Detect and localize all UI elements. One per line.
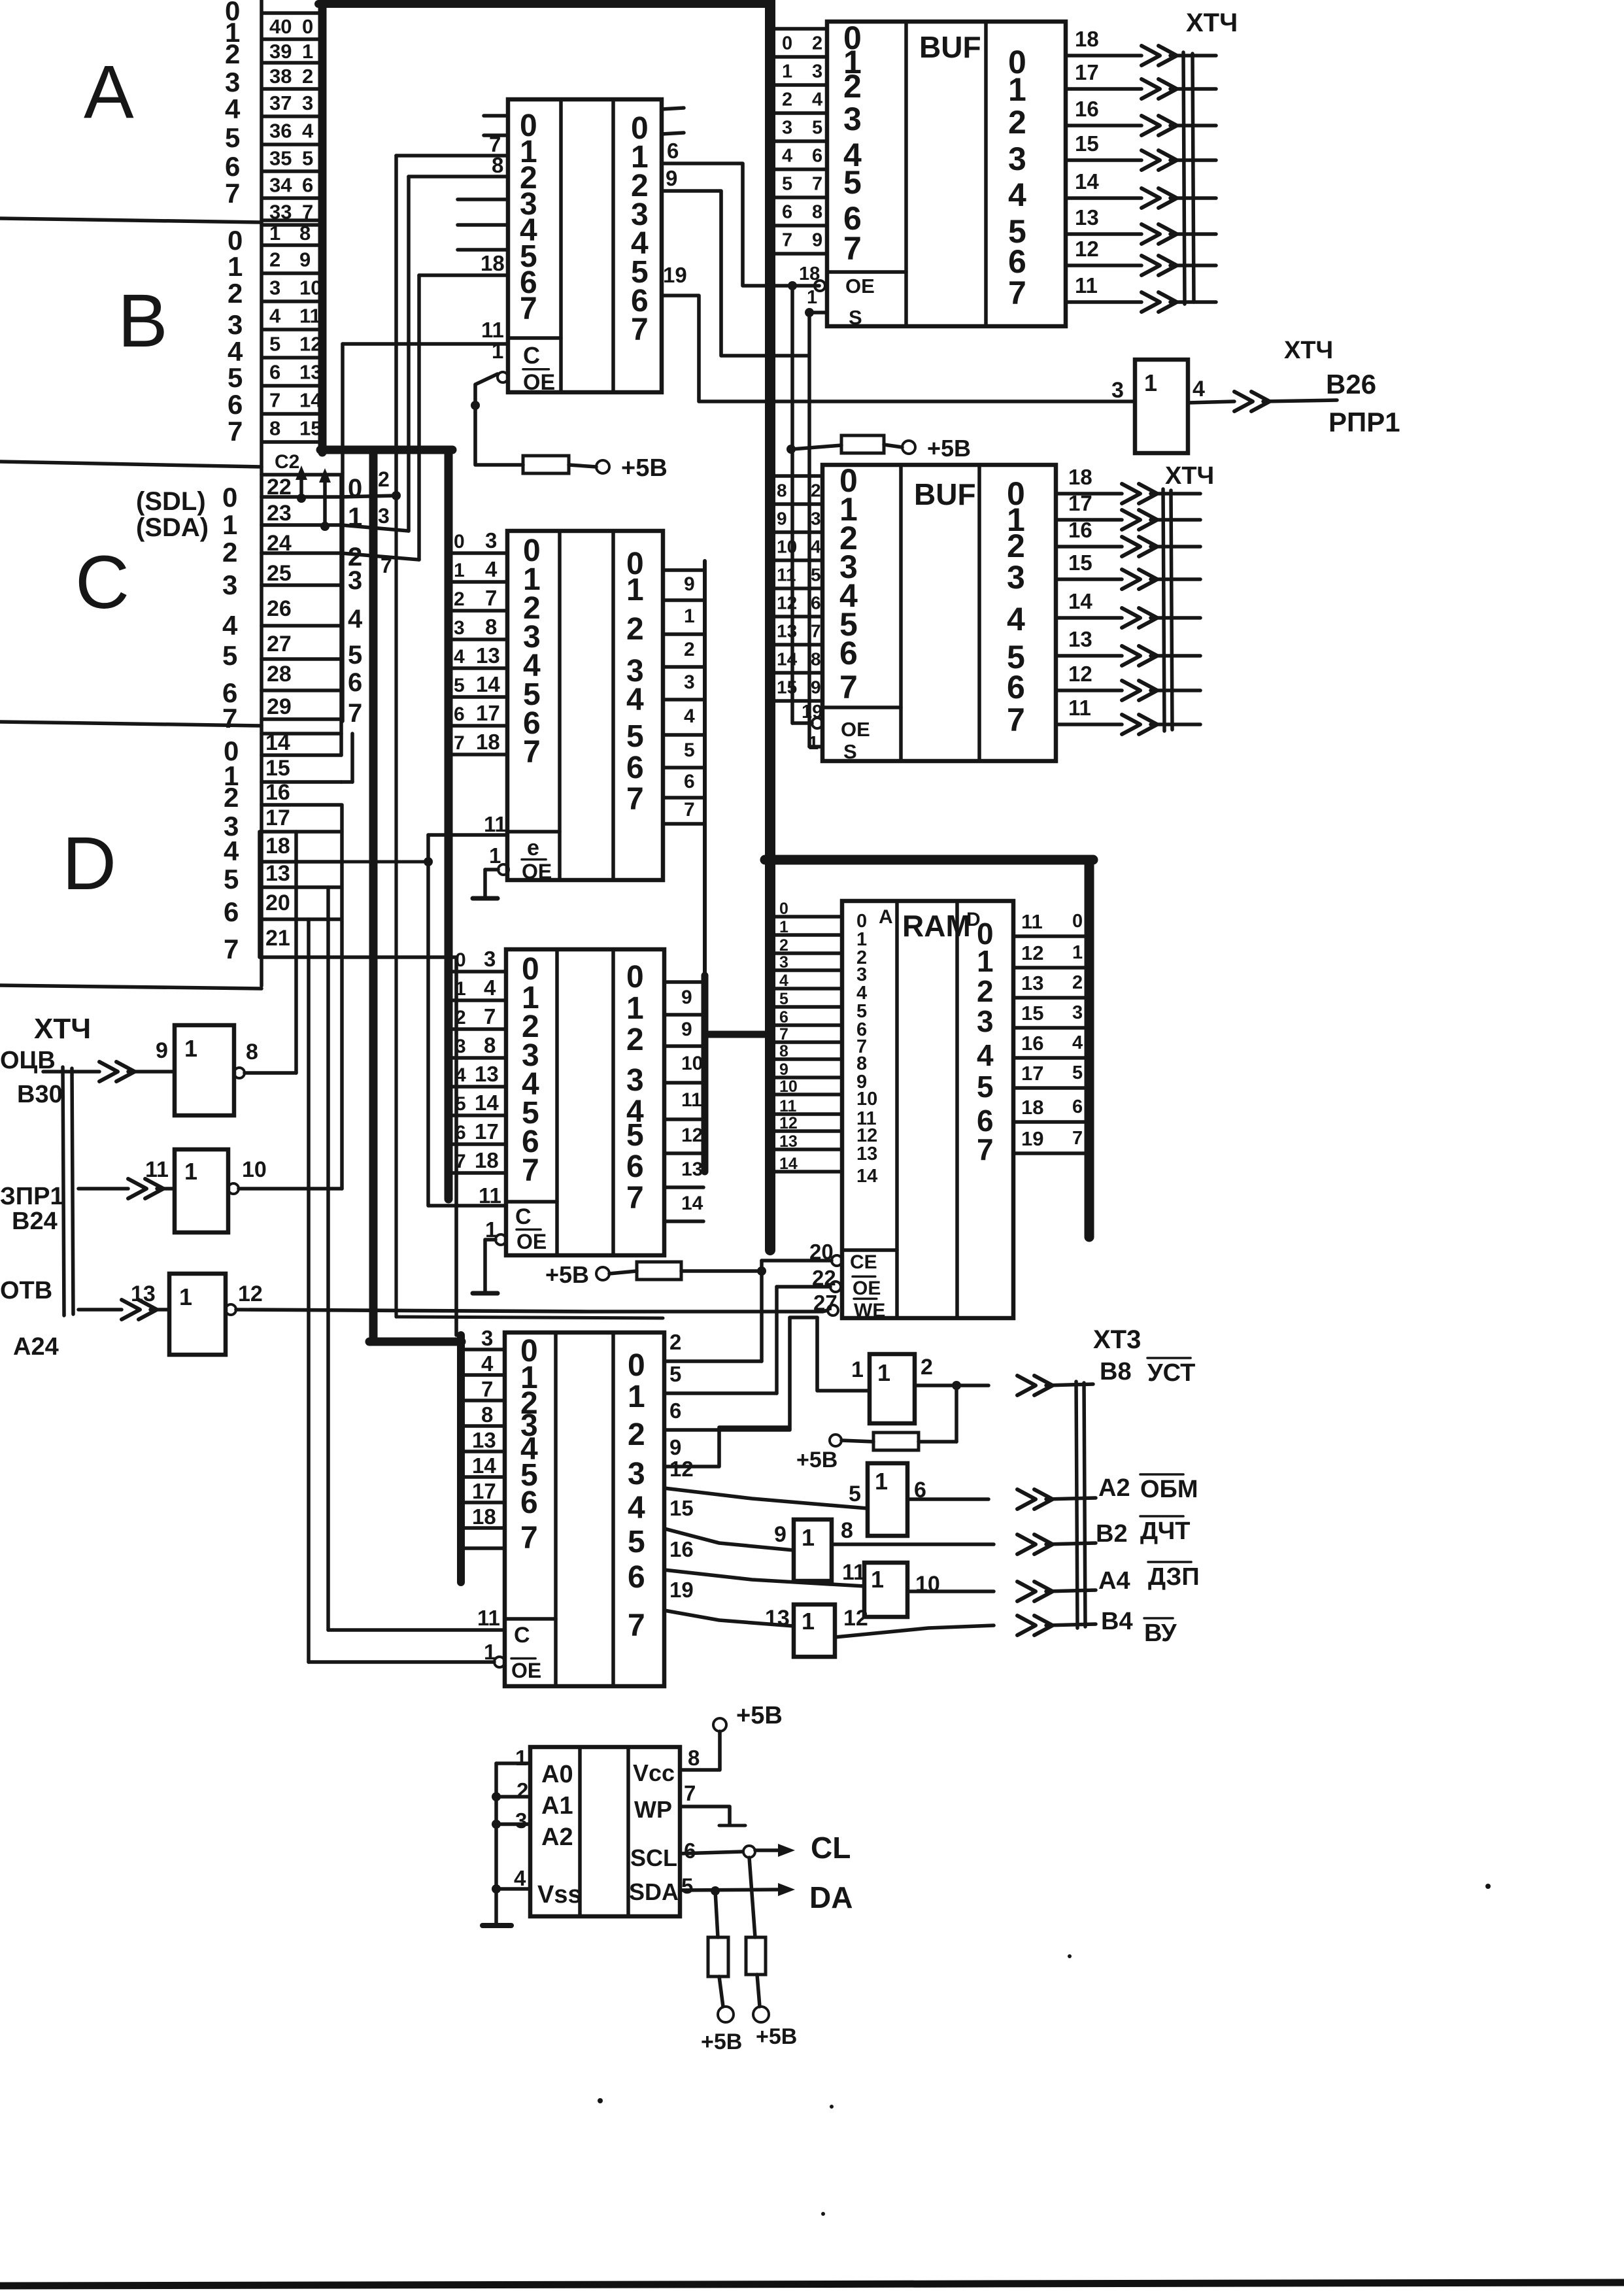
wire DZP output xyxy=(907,1589,994,1593)
svg-text:3: 3 xyxy=(225,67,240,97)
svg-text:10: 10 xyxy=(242,1157,267,1182)
svg-text:17: 17 xyxy=(1068,491,1092,515)
svg-text:RAM: RAM xyxy=(902,909,971,943)
svg-text:5: 5 xyxy=(348,641,362,670)
resistor R1 +5V xyxy=(523,456,569,473)
svg-text:9: 9 xyxy=(669,1435,681,1459)
svg-text:C: C xyxy=(75,541,129,624)
svg-text:20: 20 xyxy=(265,891,290,915)
svg-text:C: C xyxy=(515,1204,532,1229)
terminal R6 xyxy=(753,2007,769,2022)
svg-text:6: 6 xyxy=(1072,1096,1083,1117)
svg-text:ДЗП: ДЗП xyxy=(1148,1563,1200,1591)
svg-text:14: 14 xyxy=(476,672,500,696)
wire OE chain down xyxy=(790,286,794,723)
svg-text:3: 3 xyxy=(812,61,822,82)
svg-text:2: 2 xyxy=(977,974,994,1008)
wire U4 out19 to VU xyxy=(664,1610,794,1626)
svg-text:1: 1 xyxy=(454,560,465,581)
svg-text:7: 7 xyxy=(228,416,243,447)
svg-text:4: 4 xyxy=(269,305,281,328)
svg-text:3: 3 xyxy=(782,118,792,139)
wire OTV input xyxy=(78,1308,122,1312)
wire U4 out5 to OE xyxy=(664,1391,777,1395)
resistor R6 CL pullup xyxy=(749,1858,755,1937)
svg-text:5: 5 xyxy=(269,333,280,356)
svg-text:B: B xyxy=(118,279,168,363)
svg-text:12: 12 xyxy=(777,593,797,613)
svg-text:4: 4 xyxy=(782,146,792,167)
svg-text:7: 7 xyxy=(269,389,280,412)
svg-text:13: 13 xyxy=(681,1159,703,1180)
svg-text:4: 4 xyxy=(977,1038,994,1072)
wire D21 to U4 bus xyxy=(341,955,456,959)
svg-text:Vss: Vss xyxy=(537,1881,582,1909)
svg-text:5: 5 xyxy=(454,675,465,696)
svg-text:1: 1 xyxy=(871,1566,884,1593)
svg-text:16: 16 xyxy=(265,780,290,805)
node SCL arrow xyxy=(297,494,306,503)
top thick bus bar xyxy=(318,0,771,8)
wire SCL xyxy=(680,1852,743,1854)
section divider A/B xyxy=(0,218,262,222)
svg-text:7: 7 xyxy=(631,313,649,347)
latch U1 inner lines xyxy=(559,99,563,392)
svg-text:14: 14 xyxy=(472,1453,496,1478)
svg-text:17: 17 xyxy=(1075,60,1099,84)
wire U4 out9 pullup xyxy=(664,1427,788,1467)
svg-text:16: 16 xyxy=(669,1537,694,1561)
svg-text:3: 3 xyxy=(515,1808,527,1833)
svg-text:13: 13 xyxy=(779,1132,798,1151)
svg-text:14: 14 xyxy=(265,730,290,755)
wire DCT output xyxy=(832,1542,994,1546)
svg-text:25: 25 xyxy=(267,561,292,586)
svg-text:0: 0 xyxy=(782,33,792,54)
svg-text:8: 8 xyxy=(688,1746,700,1770)
svg-text:1: 1 xyxy=(489,843,501,868)
svg-text:7: 7 xyxy=(381,554,392,577)
svg-text:5: 5 xyxy=(681,1874,693,1898)
wire Vss xyxy=(496,1887,530,1891)
svg-text:6: 6 xyxy=(626,1149,644,1184)
wire R3 to CE net xyxy=(681,1269,762,1273)
wire R4 to UST net xyxy=(919,1440,956,1444)
svg-text:В30: В30 xyxy=(17,1081,63,1108)
wire U1 out9 to BUF S xyxy=(662,191,808,356)
svg-text:1: 1 xyxy=(802,1608,815,1635)
svg-text:ДЧТ: ДЧТ xyxy=(1140,1518,1190,1545)
svg-text:8: 8 xyxy=(485,615,497,639)
svg-text:2: 2 xyxy=(669,1330,681,1354)
svg-text:CL: CL xyxy=(811,1831,851,1865)
svg-text:6: 6 xyxy=(782,202,792,223)
bus U3 outputs vertical thick xyxy=(702,976,709,1172)
buffer BUF2 output wires to XT4 xyxy=(1056,492,1122,496)
svg-text:+5В: +5В xyxy=(701,2029,742,2054)
svg-text:5: 5 xyxy=(684,739,695,761)
svg-text:3: 3 xyxy=(1072,1002,1083,1023)
ram U5 address ladder xyxy=(771,915,842,919)
svg-text:5: 5 xyxy=(626,1118,644,1153)
svg-text:13: 13 xyxy=(265,861,290,886)
svg-text:0: 0 xyxy=(1072,911,1083,932)
buffer DD2.2 body xyxy=(868,1463,907,1536)
svg-text:В26: В26 xyxy=(1326,369,1376,399)
svg-text:A1: A1 xyxy=(541,1792,573,1820)
svg-text:4: 4 xyxy=(1007,601,1025,637)
svg-text:7: 7 xyxy=(684,1781,696,1805)
svg-text:5: 5 xyxy=(977,1070,994,1104)
+5V terminal R4 xyxy=(830,1434,841,1446)
svg-text:3: 3 xyxy=(626,1063,644,1098)
svg-text:14: 14 xyxy=(1075,169,1099,194)
svg-text:3: 3 xyxy=(485,528,497,552)
arrow CL xyxy=(755,1848,785,1852)
latch U2 inner lines xyxy=(558,531,562,880)
svg-text:6: 6 xyxy=(779,1008,788,1027)
svg-text:18: 18 xyxy=(476,730,500,754)
svg-text:4: 4 xyxy=(514,1866,526,1890)
svg-text:1: 1 xyxy=(184,1158,197,1185)
svg-text:2: 2 xyxy=(811,481,821,501)
svg-text:6: 6 xyxy=(454,704,465,725)
svg-text:УСТ: УСТ xyxy=(1147,1359,1195,1387)
svg-text:18: 18 xyxy=(475,1148,499,1172)
buffer BUF2 input ladder xyxy=(770,474,822,478)
svg-text:A0: A0 xyxy=(541,1761,573,1788)
svg-text:9: 9 xyxy=(681,1019,692,1040)
svg-text:12: 12 xyxy=(238,1281,263,1306)
ram U5 OE circle xyxy=(830,1281,841,1292)
svg-text:(SDL): (SDL) xyxy=(136,487,206,516)
+5V terminal R1 xyxy=(569,465,596,467)
svg-text:3: 3 xyxy=(1008,141,1026,177)
svg-text:0: 0 xyxy=(454,531,465,552)
svg-text:6: 6 xyxy=(667,139,679,163)
svg-text:7: 7 xyxy=(523,735,541,770)
svg-text:2: 2 xyxy=(921,1355,933,1380)
svg-text:18: 18 xyxy=(1075,27,1099,51)
svg-text:9: 9 xyxy=(811,677,821,698)
svg-text:В24: В24 xyxy=(12,1208,58,1235)
svg-text:8: 8 xyxy=(269,417,280,440)
svg-text:3: 3 xyxy=(1111,378,1124,403)
svg-text:В2: В2 xyxy=(1096,1520,1128,1548)
svg-text:4: 4 xyxy=(1072,1032,1083,1053)
svg-text:12: 12 xyxy=(843,1606,868,1631)
eeprom U6 body xyxy=(530,1747,680,1916)
wire U4 C from D19 xyxy=(328,1628,505,1632)
svg-text:6: 6 xyxy=(228,389,243,420)
svg-text:11: 11 xyxy=(777,565,796,585)
svg-text:6: 6 xyxy=(225,151,240,182)
svg-text:0: 0 xyxy=(222,482,237,513)
svg-text:4: 4 xyxy=(626,683,644,717)
latch U3 body xyxy=(506,949,664,1255)
port D pin ladder xyxy=(262,732,341,736)
svg-text:2: 2 xyxy=(782,90,792,110)
svg-text:5: 5 xyxy=(222,640,237,671)
svg-text:13: 13 xyxy=(475,1062,499,1086)
svg-text:ОБМ: ОБМ xyxy=(1140,1476,1198,1503)
svg-text:29: 29 xyxy=(267,694,292,719)
svg-text:OE: OE xyxy=(511,1659,541,1682)
svg-text:17: 17 xyxy=(476,701,500,725)
svg-text:+5В: +5В xyxy=(756,2024,797,2049)
svg-text:11: 11 xyxy=(1075,273,1098,297)
svg-text:ЗПР1: ЗПР1 xyxy=(0,1183,64,1210)
port D ladder left edge xyxy=(258,832,262,957)
svg-text:3: 3 xyxy=(269,277,280,299)
svg-text:9: 9 xyxy=(299,248,311,271)
svg-text:3: 3 xyxy=(348,566,362,595)
thick bus main vertical x1178 xyxy=(765,0,775,1250)
svg-text:OE: OE xyxy=(523,370,555,395)
svg-text:11: 11 xyxy=(681,1089,702,1111)
wire C2 row24 to U1 pin18 xyxy=(341,553,419,560)
svg-text:15: 15 xyxy=(265,756,290,781)
svg-text:17: 17 xyxy=(472,1479,496,1503)
svg-text:10: 10 xyxy=(777,537,797,557)
wire WP xyxy=(680,1807,730,1824)
svg-text:(SDA): (SDA) xyxy=(136,513,209,542)
wire D15 up xyxy=(350,734,354,782)
svg-text:2: 2 xyxy=(779,936,788,955)
wire e chain vertical xyxy=(426,835,430,1206)
svg-text:ХТЧ: ХТЧ xyxy=(1284,337,1333,364)
svg-text:OE: OE xyxy=(845,275,875,297)
speck 1 xyxy=(1485,1884,1491,1889)
svg-text:12: 12 xyxy=(681,1125,703,1146)
svg-text:OE: OE xyxy=(853,1278,881,1299)
svg-text:3: 3 xyxy=(843,101,862,137)
svg-text:28: 28 xyxy=(267,662,292,687)
svg-text:14: 14 xyxy=(777,649,798,670)
svg-text:18: 18 xyxy=(1021,1096,1043,1119)
speck 4 xyxy=(821,2212,825,2216)
wire OBM output xyxy=(907,1497,989,1501)
wire U3 OE to ground xyxy=(485,1238,496,1242)
section divider D bottom xyxy=(0,985,262,989)
svg-text:А4: А4 xyxy=(1098,1567,1130,1595)
svg-text:9: 9 xyxy=(779,1061,788,1079)
bus U2/U3 outputs vertical xyxy=(703,561,707,976)
terminal R5 xyxy=(718,2007,734,2022)
junction SCL xyxy=(743,1846,755,1858)
buffer DD1.3 body xyxy=(169,1274,226,1355)
svg-text:27: 27 xyxy=(267,632,292,656)
svg-text:+5В: +5В xyxy=(796,1448,837,1472)
svg-text:2: 2 xyxy=(628,1417,645,1452)
svg-text:6: 6 xyxy=(811,593,821,613)
bus U3 to RAM branch xyxy=(705,1031,769,1038)
svg-text:C: C xyxy=(514,1623,530,1648)
svg-text:4: 4 xyxy=(481,1351,494,1376)
svg-text:4: 4 xyxy=(302,120,314,143)
arrow DA head xyxy=(778,1883,795,1896)
svg-text:5: 5 xyxy=(1072,1062,1083,1083)
+5V terminal U6 xyxy=(713,1718,726,1731)
svg-text:8: 8 xyxy=(484,1033,496,1057)
port C inner column line xyxy=(339,475,343,755)
svg-text:5: 5 xyxy=(779,990,788,1008)
svg-text:13: 13 xyxy=(777,621,797,641)
buffer BUF1 inner lines xyxy=(904,22,908,326)
svg-text:4: 4 xyxy=(485,557,498,581)
svg-text:1: 1 xyxy=(1144,369,1157,396)
svg-text:1: 1 xyxy=(515,1746,527,1770)
svg-text:3: 3 xyxy=(977,1004,994,1038)
connector XP1 right border xyxy=(260,0,263,986)
svg-text:8: 8 xyxy=(777,481,787,501)
wire ZPR1 input xyxy=(78,1187,128,1191)
svg-text:1: 1 xyxy=(802,1524,815,1551)
svg-text:6: 6 xyxy=(669,1399,681,1423)
svg-text:11: 11 xyxy=(1068,696,1091,720)
svg-text:7: 7 xyxy=(626,1181,644,1215)
ram U5 CE circle xyxy=(832,1255,842,1266)
svg-text:0: 0 xyxy=(626,960,644,994)
svg-text:39: 39 xyxy=(269,40,292,63)
svg-text:9: 9 xyxy=(666,166,677,190)
svg-text:5: 5 xyxy=(812,118,822,139)
svg-text:6: 6 xyxy=(269,361,280,384)
svg-text:2: 2 xyxy=(812,33,822,54)
buffer DD1.2 out circle xyxy=(228,1183,239,1194)
svg-text:12: 12 xyxy=(299,333,322,356)
ground U6 xyxy=(494,1763,498,1924)
wire S chain down xyxy=(807,313,811,747)
svg-text:7: 7 xyxy=(1007,702,1025,738)
svg-text:5: 5 xyxy=(225,122,240,153)
svg-text:7: 7 xyxy=(348,699,362,728)
buffer BUF1 input ladder xyxy=(770,27,827,31)
svg-text:2: 2 xyxy=(225,39,240,69)
wire A0 xyxy=(496,1761,530,1765)
svg-text:23: 23 xyxy=(267,501,292,526)
latch U3 control divider xyxy=(506,1200,557,1204)
svg-text:9: 9 xyxy=(812,230,822,251)
svg-text:4: 4 xyxy=(484,976,496,1000)
thick bus vertical x1666 xyxy=(1085,860,1094,1237)
port C pin ladder xyxy=(262,473,341,477)
svg-text:9: 9 xyxy=(156,1038,168,1063)
svg-text:1: 1 xyxy=(877,1359,890,1386)
svg-text:12: 12 xyxy=(669,1457,694,1481)
svg-text:11: 11 xyxy=(779,1097,797,1115)
svg-text:+5В: +5В xyxy=(736,1702,783,1729)
connector XT4 top lines xyxy=(1183,52,1185,304)
svg-text:18: 18 xyxy=(1068,465,1092,489)
svg-text:14: 14 xyxy=(779,1155,798,1173)
wire U4 out15 to DCT xyxy=(664,1529,794,1550)
svg-text:17: 17 xyxy=(1021,1062,1043,1085)
svg-text:7: 7 xyxy=(520,1521,538,1555)
wire U4 out16 to DZP xyxy=(664,1570,864,1586)
svg-text:12: 12 xyxy=(1075,237,1099,261)
svg-text:9: 9 xyxy=(774,1522,787,1547)
wire DD1.2 out to D16 xyxy=(239,1187,342,1191)
svg-text:13: 13 xyxy=(131,1281,156,1306)
connector XP1 thick edge bus xyxy=(318,0,327,452)
svg-text:10: 10 xyxy=(779,1078,798,1096)
port A pin boxes xyxy=(263,11,320,15)
latch U2 control divider xyxy=(507,830,560,834)
svg-text:11: 11 xyxy=(477,1606,500,1630)
svg-text:14: 14 xyxy=(475,1091,499,1115)
svg-text:6: 6 xyxy=(812,146,822,167)
svg-text:7: 7 xyxy=(977,1132,994,1166)
svg-text:6: 6 xyxy=(684,771,695,792)
svg-text:6: 6 xyxy=(224,896,239,927)
svg-text:7: 7 xyxy=(520,292,537,326)
svg-text:1: 1 xyxy=(1072,942,1083,963)
svg-text:7: 7 xyxy=(811,621,821,641)
svg-text:3: 3 xyxy=(222,569,237,600)
svg-text:2: 2 xyxy=(1008,104,1026,141)
svg-text:7: 7 xyxy=(225,178,240,209)
thick bus horizontal y1315 xyxy=(765,855,1093,865)
svg-text:4: 4 xyxy=(454,646,465,668)
resistor R4 +5V xyxy=(873,1433,919,1450)
svg-text:2: 2 xyxy=(626,612,644,647)
svg-text:3: 3 xyxy=(378,504,390,528)
svg-text:7: 7 xyxy=(684,799,695,821)
svg-text:15: 15 xyxy=(1021,1002,1043,1025)
svg-text:7: 7 xyxy=(522,1153,539,1188)
svg-text:3: 3 xyxy=(779,953,788,972)
thick bus corner to U4 xyxy=(369,1338,462,1346)
svg-text:18: 18 xyxy=(265,834,290,858)
svg-text:5: 5 xyxy=(228,362,243,393)
svg-text:5: 5 xyxy=(782,174,792,195)
svg-text:+5В: +5В xyxy=(927,435,971,462)
svg-text:2: 2 xyxy=(222,537,237,568)
svg-text:0: 0 xyxy=(302,15,313,38)
svg-text:A: A xyxy=(84,50,134,134)
svg-text:В8: В8 xyxy=(1100,1358,1132,1385)
svg-text:16: 16 xyxy=(1021,1032,1043,1055)
wire U3 C xyxy=(429,1204,506,1208)
svg-text:18: 18 xyxy=(799,263,820,284)
svg-text:14: 14 xyxy=(681,1193,703,1214)
latch U4 control divider xyxy=(505,1617,556,1621)
svg-text:SDA: SDA xyxy=(629,1878,679,1905)
wire SDA xyxy=(680,1890,779,1890)
resistor R3 +5V xyxy=(637,1262,681,1280)
svg-text:7: 7 xyxy=(782,230,792,251)
buffer BUF1 OE divider xyxy=(827,270,906,274)
svg-text:7: 7 xyxy=(779,1025,788,1044)
svg-text:7: 7 xyxy=(839,669,858,705)
svg-text:14: 14 xyxy=(856,1166,877,1187)
svg-text:3: 3 xyxy=(302,92,313,114)
svg-text:1: 1 xyxy=(977,944,994,978)
buffer BUF2 S wire xyxy=(809,745,822,749)
svg-text:D: D xyxy=(62,822,116,906)
svg-text:7: 7 xyxy=(485,586,497,610)
svg-text:6: 6 xyxy=(628,1560,645,1595)
svg-text:6: 6 xyxy=(302,174,313,197)
svg-text:17: 17 xyxy=(475,1119,499,1144)
svg-text:4: 4 xyxy=(779,972,788,990)
node SDA arrow xyxy=(320,522,330,531)
svg-text:7: 7 xyxy=(224,934,239,964)
svg-text:0: 0 xyxy=(628,1348,645,1383)
ram U5 body xyxy=(842,901,1013,1318)
svg-text:9: 9 xyxy=(681,987,692,1008)
